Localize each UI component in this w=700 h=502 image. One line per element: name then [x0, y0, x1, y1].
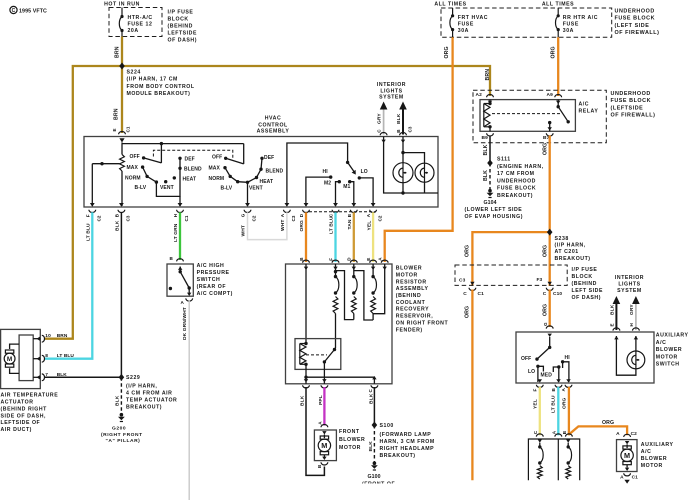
- svg-text:BLOWER: BLOWER: [396, 266, 422, 272]
- resistor branch F (thermal limiter + R1): [333, 264, 339, 348]
- actuator pins 10 8 7: [33, 333, 74, 381]
- svg-text:LT BLU: LT BLU: [551, 395, 557, 413]
- svg-text:UNDERHOOD: UNDERHOOD: [497, 178, 536, 184]
- svg-text:ORG: ORG: [444, 46, 450, 58]
- svg-text:AIR DUCT): AIR DUCT): [1, 427, 32, 433]
- fan contact M2 to pin C: [324, 180, 341, 206]
- svg-text:BRN: BRN: [113, 108, 119, 120]
- lamp returns: [401, 182, 424, 195]
- pin B9: [482, 133, 494, 141]
- svg-text:SWITCH: SWITCH: [656, 362, 680, 368]
- svg-text:SYSTEM: SYSTEM: [379, 95, 404, 101]
- svg-text:AUXILIARY: AUXILIARY: [641, 442, 674, 448]
- svg-text:ORG: ORG: [602, 420, 614, 426]
- svg-text:A/C: A/C: [656, 340, 667, 346]
- svg-text:20A: 20A: [128, 28, 139, 34]
- svg-text:BLOWER: BLOWER: [641, 456, 667, 462]
- interior lights system label (HVAC): [377, 82, 406, 101]
- svg-text:FUSE BLOCK: FUSE BLOCK: [497, 186, 536, 192]
- svg-text:C: C: [543, 291, 547, 297]
- svg-text:M: M: [321, 441, 327, 450]
- svg-text:OFF: OFF: [212, 155, 222, 161]
- svg-text:I/P FUSE: I/P FUSE: [572, 267, 598, 273]
- svg-text:OFF: OFF: [130, 154, 140, 160]
- svg-text:A/C: A/C: [579, 102, 590, 108]
- svg-text:C10: C10: [553, 291, 562, 297]
- svg-text:M: M: [7, 356, 12, 363]
- svg-text:INTERIOR: INTERIOR: [615, 275, 644, 281]
- svg-text:C: C: [463, 291, 467, 297]
- svg-text:BREAKOUT): BREAKOUT): [555, 256, 591, 262]
- svg-text:OF EVAP HOUSING): OF EVAP HOUSING): [465, 214, 523, 220]
- svg-text:B: B: [114, 213, 119, 217]
- HVAC mode switch wafer 2: [223, 144, 263, 206]
- svg-text:HI: HI: [323, 169, 329, 175]
- svg-text:C3: C3: [408, 126, 413, 132]
- pin A feed to branch E: [373, 264, 385, 314]
- svg-text:A: A: [616, 431, 620, 437]
- fuse RR HTR A/C FUSE 30A: [556, 8, 599, 37]
- svg-text:LT BLU: LT BLU: [57, 353, 75, 359]
- svg-text:FUSE 12: FUSE 12: [128, 22, 153, 28]
- svg-text:C1: C1: [184, 215, 189, 221]
- svg-text:C3: C3: [126, 215, 131, 221]
- svg-text:LEFT SIDE: LEFT SIDE: [572, 288, 603, 294]
- svg-text:TEMP ACTUATOR: TEMP ACTUATOR: [126, 397, 177, 403]
- svg-text:BLK: BLK: [114, 220, 120, 231]
- pin B feed to relay coil: [305, 264, 307, 344]
- svg-text:UNDERHOOD: UNDERHOOD: [611, 91, 651, 97]
- link F to branch D bottom: [336, 271, 354, 320]
- svg-text:1995 VFTC: 1995 VFTC: [19, 8, 47, 14]
- svg-text:HTR-A/C: HTR-A/C: [128, 15, 153, 21]
- svg-text:ORG: ORG: [464, 306, 470, 318]
- svg-text:H: H: [629, 323, 634, 327]
- svg-text:ON RIGHT FRONT: ON RIGHT FRONT: [396, 320, 449, 326]
- svg-text:C1: C1: [632, 475, 639, 481]
- svg-text:HOT IN RUN: HOT IN RUN: [104, 2, 140, 8]
- fuse FRT HVAC FUSE 30A: [450, 8, 488, 37]
- resistor bottom connectors: [303, 385, 378, 392]
- actuator motor: [4, 344, 19, 373]
- lamp feed from pin B: [401, 137, 424, 164]
- aux resistor branch B: [566, 439, 572, 479]
- resistor relay link (dashed): [306, 354, 327, 356]
- svg-text:GRY: GRY: [629, 304, 635, 315]
- svg-text:(BEHIND: (BEHIND: [572, 281, 597, 287]
- svg-text:A: A: [378, 257, 383, 261]
- svg-text:AIR TEMPERATURE: AIR TEMPERATURE: [1, 393, 59, 399]
- svg-text:PPL: PPL: [318, 395, 324, 405]
- aux switch pins E H connectors: [613, 328, 639, 340]
- wire ORG FRT HVAC fuse to blower motor resistor pin A: [385, 37, 453, 262]
- svg-text:YEL: YEL: [533, 399, 539, 409]
- svg-text:GRY: GRY: [377, 113, 383, 124]
- svg-text:A: A: [317, 421, 322, 425]
- svg-text:B: B: [347, 213, 352, 217]
- svg-text:BREAKOUT): BREAKOUT): [380, 453, 416, 459]
- svg-text:B: B: [562, 430, 567, 434]
- svg-text:(I/P HARN,: (I/P HARN,: [555, 243, 586, 249]
- svg-text:TAN: TAN: [347, 219, 353, 229]
- wire DK GRN/WHT from pressure switch: [182, 300, 189, 500]
- wire ORG pin D to resistor pin B: [305, 212, 307, 262]
- svg-text:BRN: BRN: [57, 333, 68, 339]
- svg-text:A/C COMPT): A/C COMPT): [197, 291, 233, 297]
- svg-text:A: A: [561, 388, 566, 392]
- wiper tap to pin F: [92, 162, 119, 206]
- svg-text:S238: S238: [555, 236, 569, 242]
- svg-text:(BEHIND: (BEHIND: [168, 24, 193, 30]
- wire YEL pin A to resistor pin E: [372, 212, 374, 262]
- HVAC mode switch wafer 1 feed: [122, 142, 244, 163]
- A/C relay underhood fuse block (dashed): [473, 90, 655, 142]
- I/P fuse block 2 (dashed): [455, 265, 603, 301]
- wire ORG RR HTR fuse to A/C relay pin A9: [551, 37, 559, 96]
- svg-text:RELAY: RELAY: [579, 109, 599, 115]
- wire LT GRN pin H to A/C high pressure switch: [179, 212, 181, 260]
- resistor relay switch: [323, 348, 337, 384]
- svg-text:(I/P HARN,: (I/P HARN,: [126, 383, 157, 389]
- auxiliary blower resistor box (clipped): [528, 439, 579, 480]
- auxiliary A/C blower motor switch box: [516, 332, 689, 383]
- svg-text:RR HTR A/C: RR HTR A/C: [563, 15, 598, 21]
- pin A9: [547, 92, 562, 104]
- wire BRN S224 down to HVAC pin E C1: [112, 66, 131, 133]
- svg-text:LIGHTS: LIGHTS: [380, 88, 402, 94]
- svg-text:LO: LO: [361, 169, 368, 175]
- svg-text:COOLANT: COOLANT: [396, 300, 426, 306]
- svg-text:I/P FUSE: I/P FUSE: [168, 10, 194, 16]
- wire BLK pin B to S229: [120, 212, 122, 377]
- wafer 2 labels: [209, 155, 284, 192]
- svg-text:C2: C2: [252, 215, 257, 221]
- I/P fuse block label: [168, 10, 197, 44]
- air temperature actuator box: [1, 329, 59, 433]
- wire BLK S229 to actuator pin 7: [45, 376, 122, 378]
- svg-text:MAX: MAX: [127, 165, 139, 171]
- auxiliary A/C blower motor M2: [616, 431, 673, 484]
- aux contact HI to pin A: [561, 355, 570, 382]
- svg-text:MOTOR: MOTOR: [641, 463, 663, 469]
- svg-text:FUSE BLOCK: FUSE BLOCK: [611, 98, 652, 104]
- svg-text:A: A: [280, 213, 285, 217]
- wire BLK S229 to G200 (dashed): [115, 377, 122, 411]
- svg-text:E: E: [366, 258, 371, 261]
- svg-text:G: G: [241, 213, 246, 217]
- svg-text:ASSEMBLY: ASSEMBLY: [257, 129, 290, 135]
- svg-text:B: B: [317, 464, 322, 468]
- svg-text:C3: C3: [459, 278, 466, 284]
- svg-text:ORG: ORG: [299, 220, 305, 232]
- aux contact LO to pin F: [528, 365, 543, 382]
- svg-text:BLOWER: BLOWER: [339, 437, 365, 443]
- svg-text:(BEHIND RIGHT: (BEHIND RIGHT: [1, 406, 48, 412]
- illumination lamps sub-box: [384, 137, 438, 194]
- relay coil: [484, 100, 492, 132]
- wire ORG S238 branch left: [464, 232, 549, 286]
- svg-text:WHT: WHT: [241, 225, 247, 236]
- svg-text:NORM: NORM: [209, 176, 225, 182]
- svg-text:LT BLU: LT BLU: [85, 223, 91, 241]
- connector C10 pin C: [543, 282, 563, 297]
- svg-text:A/C HIGH: A/C HIGH: [197, 263, 225, 269]
- svg-text:ALL TIMES: ALL TIMES: [542, 2, 574, 8]
- connector C1 pin C: [463, 282, 484, 297]
- wire BLK aux switch pin E to interior lights: [610, 296, 621, 330]
- svg-text:MODULE BREAKOUT): MODULE BREAKOUT): [127, 91, 191, 97]
- wire BRN fuse 12 to S224: [114, 37, 122, 67]
- svg-text:RESERVOIR,: RESERVOIR,: [396, 314, 433, 320]
- splice S100: [372, 422, 435, 460]
- svg-text:BLK: BLK: [115, 395, 121, 406]
- svg-text:MOTOR: MOTOR: [339, 445, 361, 451]
- underhood fuse block (dashed): [434, 2, 611, 38]
- svg-text:ASSEMBLY: ASSEMBLY: [396, 286, 429, 292]
- aux switch bottom connectors F B A: [533, 379, 572, 391]
- svg-text:30A: 30A: [458, 28, 469, 34]
- wire BLK HVAC pin B to interior lights: [396, 102, 412, 135]
- svg-text:FROM BODY CONTROL: FROM BODY CONTROL: [127, 84, 195, 90]
- svg-text:BLOCK: BLOCK: [168, 17, 189, 23]
- copyright 1995 VFTC: [10, 6, 47, 14]
- svg-text:RIGHT HEADLAMP: RIGHT HEADLAMP: [380, 446, 435, 452]
- fan contact M1 to pin B: [343, 180, 354, 206]
- svg-text:AT C201: AT C201: [555, 249, 579, 255]
- svg-text:S229: S229: [126, 375, 140, 381]
- svg-text:ORG: ORG: [543, 304, 549, 316]
- svg-text:MED: MED: [541, 372, 553, 378]
- svg-text:VENT: VENT: [249, 186, 263, 192]
- svg-text:BLK: BLK: [483, 170, 489, 181]
- svg-text:ALL TIMES: ALL TIMES: [434, 2, 466, 8]
- wire ORG relay B7 to S238: [543, 136, 550, 233]
- svg-text:FUSE BLOCK: FUSE BLOCK: [615, 16, 656, 22]
- svg-text:LEFTSIDE OF: LEFTSIDE OF: [1, 420, 41, 426]
- resistor branch E (thermal limiter + R3): [371, 264, 377, 320]
- mechanical link wafers (dashed): [153, 150, 232, 159]
- svg-text:7: 7: [45, 372, 48, 378]
- splice S224: [119, 63, 195, 98]
- svg-text:SWITCH: SWITCH: [197, 277, 221, 283]
- splice S229: [119, 374, 178, 411]
- svg-text:S100: S100: [380, 423, 394, 429]
- svg-text:PRESSURE: PRESSURE: [197, 270, 230, 276]
- svg-text:M2: M2: [324, 181, 331, 187]
- svg-text:C3: C3: [291, 215, 296, 221]
- A/C high pressure switch S1: [167, 256, 233, 305]
- svg-text:SYSTEM: SYSTEM: [617, 288, 642, 294]
- svg-text:MOTOR: MOTOR: [656, 354, 678, 360]
- svg-text:G200: G200: [112, 426, 126, 432]
- wire ORG S238 down to fuse F3: [543, 232, 550, 286]
- svg-text:"A" PILLAR): "A" PILLAR): [106, 438, 141, 444]
- svg-text:BLK: BLK: [368, 393, 374, 404]
- svg-text:A: A: [552, 430, 557, 434]
- svg-text:A: A: [181, 300, 185, 305]
- svg-text:B: B: [396, 129, 401, 133]
- svg-text:B-LV: B-LV: [221, 186, 233, 192]
- wire LT BLU aux switch B to aux resistor A: [551, 387, 562, 437]
- svg-text:E: E: [112, 128, 117, 131]
- resistor top connectors B F D E A: [299, 257, 388, 270]
- svg-text:ORG: ORG: [562, 397, 568, 409]
- wafer 1 labels: [125, 154, 202, 191]
- svg-text:F: F: [85, 214, 90, 217]
- svg-text:MAX: MAX: [209, 166, 221, 172]
- svg-text:G104: G104: [484, 200, 497, 206]
- svg-text:ORG: ORG: [551, 46, 557, 58]
- svg-text:MOTOR: MOTOR: [396, 272, 418, 278]
- svg-text:BLOCK: BLOCK: [572, 274, 593, 280]
- pin A2: [476, 92, 494, 104]
- svg-text:BLEND: BLEND: [184, 167, 202, 173]
- svg-text:OF DASH): OF DASH): [572, 295, 601, 301]
- wire TAN pin B to resistor pin D: [353, 212, 355, 262]
- fan switch lever: [348, 162, 356, 174]
- svg-text:SIDE OF DASH,: SIDE OF DASH,: [1, 413, 46, 419]
- svg-text:BRN: BRN: [485, 69, 491, 81]
- wire BLK resistor to front blower motor pin B: [300, 387, 325, 475]
- svg-text:LO: LO: [528, 369, 535, 375]
- HVAC control assembly box: [84, 115, 438, 207]
- svg-text:(BEHIND: (BEHIND: [396, 293, 421, 299]
- svg-text:C1: C1: [478, 291, 485, 297]
- svg-text:BLK: BLK: [610, 304, 616, 315]
- interior lights system label (aux): [615, 275, 644, 294]
- svg-text:LT BLU: LT BLU: [329, 216, 335, 234]
- ground G200: [101, 413, 143, 444]
- svg-text:S111: S111: [497, 157, 511, 163]
- resistor branch D (thermal limiter + R2): [351, 264, 357, 320]
- aux switch pin G: [543, 322, 553, 337]
- wire YEL aux switch F to aux resistor C: [533, 387, 544, 437]
- svg-text:BLK: BLK: [57, 372, 68, 378]
- svg-text:A: A: [366, 213, 371, 217]
- svg-text:C: C: [533, 430, 538, 434]
- svg-text:DK GRN/WHT: DK GRN/WHT: [182, 307, 188, 340]
- wire color labels below HVAC: [85, 216, 372, 242]
- svg-text:LT GRN: LT GRN: [173, 223, 179, 242]
- wire BLK S111 to G104 (dashed): [483, 163, 490, 189]
- wire BLK relay B9 to S111: [483, 136, 490, 164]
- svg-text:HI: HI: [565, 355, 571, 361]
- svg-text:BLK: BLK: [300, 395, 306, 406]
- fan contact LO to pin A: [358, 169, 374, 206]
- svg-text:BLK: BLK: [396, 113, 402, 124]
- svg-text:B: B: [551, 388, 556, 392]
- wire WHT pins G-A jumper: [248, 212, 287, 239]
- front blower motor M1: [314, 425, 365, 468]
- svg-text:ORG: ORG: [543, 245, 549, 257]
- svg-text:8: 8: [45, 353, 48, 359]
- wire GRY aux switch pin H to interior lights: [629, 296, 640, 330]
- aux switch lever: [521, 337, 551, 362]
- svg-text:(LEFT SIDE: (LEFT SIDE: [615, 23, 650, 29]
- svg-text:F3: F3: [537, 277, 543, 283]
- ground G104: [465, 189, 523, 220]
- aux resistor branch C: [537, 439, 543, 479]
- lamp L2: [415, 163, 434, 182]
- svg-text:M: M: [624, 451, 630, 460]
- svg-text:OF FIREWALL): OF FIREWALL): [611, 113, 656, 119]
- svg-text:(LEFTSIDE: (LEFTSIDE: [611, 105, 644, 111]
- svg-text:RECOVERY: RECOVERY: [396, 307, 429, 313]
- I/P fuse block (dashed): [104, 2, 162, 37]
- lamp L1: [393, 163, 413, 183]
- svg-text:E: E: [610, 323, 615, 326]
- svg-text:A: A: [620, 475, 624, 481]
- svg-text:H: H: [173, 213, 178, 217]
- svg-text:AUXILIARY: AUXILIARY: [656, 333, 689, 339]
- underhood fuse block label: [615, 9, 660, 37]
- svg-text:A2: A2: [476, 92, 483, 98]
- svg-text:FUSE: FUSE: [563, 22, 579, 28]
- relay mechanical link (dashed): [492, 113, 562, 115]
- svg-text:(ENGINE HARN,: (ENGINE HARN,: [497, 164, 544, 170]
- svg-text:BLK: BLK: [368, 441, 374, 452]
- wire BRN S224 right to A/C relay pin A2: [122, 66, 491, 96]
- connectors at HVAC top pins C and B: [380, 132, 406, 143]
- aux contact MED to pin B: [541, 365, 561, 382]
- svg-text:10: 10: [45, 333, 51, 339]
- svg-text:WHT: WHT: [280, 220, 286, 231]
- svg-text:DEF: DEF: [264, 155, 274, 161]
- svg-text:17 CM FROM: 17 CM FROM: [497, 171, 535, 177]
- svg-text:C: C: [368, 389, 373, 393]
- ground G100: [355, 461, 405, 502]
- wire LT BLU pin C to resistor pin F: [334, 212, 336, 262]
- svg-text:C2: C2: [377, 215, 382, 221]
- svg-text:HEAT: HEAT: [260, 179, 274, 185]
- svg-text:G: G: [543, 322, 548, 326]
- svg-text:A9: A9: [547, 92, 554, 98]
- svg-text:BLK: BLK: [483, 144, 489, 155]
- mode switch wafer 1 lever: [142, 156, 161, 163]
- svg-text:FUSE: FUSE: [458, 22, 474, 28]
- svg-text:F: F: [328, 258, 333, 261]
- svg-text:FENDER): FENDER): [396, 327, 423, 333]
- svg-text:(LOWER LEFT SIDE: (LOWER LEFT SIDE: [465, 207, 523, 213]
- svg-text:(FORWARD LAMP: (FORWARD LAMP: [380, 432, 432, 438]
- svg-text:BLEND: BLEND: [266, 169, 284, 175]
- wire PPL resistor to front blower motor pin A: [317, 387, 324, 426]
- svg-text:ACTUATOR: ACTUATOR: [1, 400, 34, 406]
- svg-text:RESISTOR: RESISTOR: [396, 279, 427, 285]
- link D to branch E bottom: [354, 271, 373, 320]
- svg-text:ORG: ORG: [464, 245, 470, 257]
- ground rail to pins BLK / C: [304, 364, 377, 384]
- svg-text:S224: S224: [127, 70, 141, 76]
- connector C1 pin E at HVAC top: [119, 132, 126, 143]
- svg-text:A/C: A/C: [641, 449, 652, 455]
- svg-text:F: F: [533, 389, 538, 392]
- svg-text:ORG: ORG: [543, 143, 549, 155]
- wire BRN S224 branch left to air temperature actuator: [45, 66, 123, 339]
- svg-text:HEAT: HEAT: [183, 177, 197, 183]
- svg-text:LIGHTS: LIGHTS: [618, 282, 640, 288]
- svg-text:HARN, 3 CM FROM: HARN, 3 CM FROM: [380, 439, 435, 445]
- svg-text:YEL: YEL: [366, 221, 372, 231]
- svg-text:BRN: BRN: [114, 46, 120, 58]
- svg-text:FRT HVAC: FRT HVAC: [458, 15, 488, 21]
- svg-text:G100: G100: [368, 474, 381, 480]
- svg-text:B: B: [299, 257, 304, 261]
- fuse HTR-A/C FUSE 12 20A: [119, 8, 152, 37]
- wire GRY HVAC pin C to interior lights: [377, 102, 388, 135]
- wire ORG C1 down (to rear): [464, 290, 472, 481]
- fan contact HI to pin D: [306, 169, 333, 206]
